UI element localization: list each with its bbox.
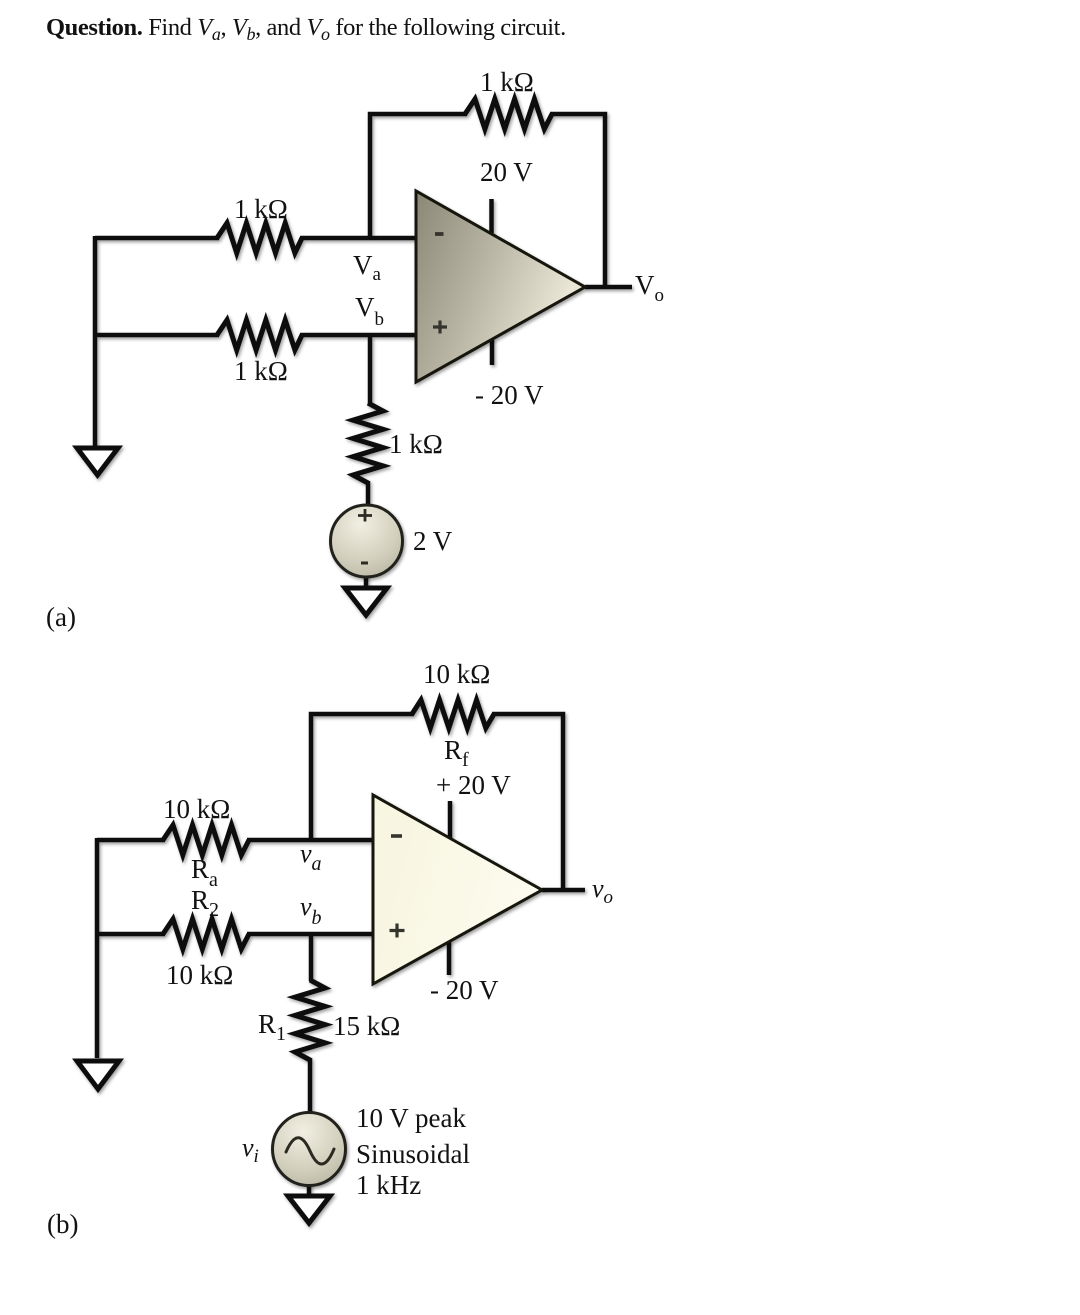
- ground left (a): [77, 448, 118, 475]
- svg-text:Rf: Rf: [444, 735, 469, 771]
- resistor 1k vertical (a): [353, 403, 383, 483]
- wire feedback right (a): [550, 114, 605, 289]
- svg-text:10 kΩ: 10 kΩ: [166, 960, 233, 990]
- wire output (b): [542, 888, 585, 893]
- wire source to ground (b): [307, 1184, 312, 1196]
- svg-text:Vb: Vb: [355, 292, 384, 330]
- resistor R input bottom 1k (a): [217, 320, 302, 350]
- resistor R input top 1k (a): [217, 223, 302, 253]
- svg-text:1 kΩ: 1 kΩ: [389, 429, 443, 459]
- wire left rail (a): [93, 236, 98, 446]
- svg-text:10 kΩ: 10 kΩ: [423, 659, 490, 689]
- op-amp U2 (b): [373, 795, 542, 984]
- source minus mark (a): [361, 562, 368, 565]
- wire node b down (a): [368, 335, 373, 404]
- wire to plus pin (a): [300, 333, 416, 338]
- sine mark (b): [286, 1138, 334, 1164]
- source plus mark (a): [358, 509, 372, 522]
- minus pin mark (b): [391, 834, 402, 838]
- svg-text:Sinusoidal: Sinusoidal: [356, 1139, 470, 1169]
- svg-text:Va: Va: [353, 250, 382, 285]
- resistor R1 15k vertical (b): [295, 980, 325, 1060]
- resistor R2 10k (b): [163, 919, 249, 949]
- wire node b down (b): [309, 934, 314, 981]
- svg-text:vi: vi: [242, 1133, 259, 1167]
- svg-text:10 V peak: 10 V peak: [356, 1103, 466, 1133]
- ground bottom (a): [345, 588, 387, 615]
- svg-text:15 kΩ: 15 kΩ: [333, 1011, 400, 1041]
- resistor Rf 10k (b): [412, 700, 494, 728]
- svg-text:1 kΩ: 1 kΩ: [234, 356, 288, 386]
- power stub +20 (b): [448, 801, 453, 838]
- wire noninverting input (a): [95, 333, 219, 338]
- wire feedback right (b): [492, 714, 563, 892]
- minus pin mark (a): [435, 232, 444, 236]
- svg-text:- 20 V: - 20 V: [475, 380, 544, 410]
- power stub -20 (b): [447, 941, 452, 975]
- wire to plus pin (b): [247, 932, 373, 937]
- svg-text:1 kΩ: 1 kΩ: [480, 67, 534, 97]
- svg-text:va: va: [300, 839, 322, 875]
- wire noninverting input (b): [97, 932, 165, 937]
- wire resistor to source (b): [308, 1058, 313, 1114]
- ground left (b): [77, 1061, 119, 1089]
- wire output (a): [585, 285, 632, 290]
- plus pin mark (b): [390, 924, 405, 938]
- svg-text:20 V: 20 V: [480, 157, 533, 187]
- wire inverting input (a): [95, 236, 219, 241]
- wire source to ground (a): [364, 575, 369, 589]
- svg-text:1 kHz: 1 kHz: [356, 1170, 421, 1200]
- svg-text:Vo: Vo: [635, 270, 664, 306]
- svg-text:R1: R1: [258, 1009, 286, 1045]
- svg-text:vb: vb: [300, 892, 322, 929]
- svg-text:1 kΩ: 1 kΩ: [234, 194, 288, 224]
- wire feedback left vertical (a): [370, 114, 467, 238]
- wire to minus pin (b): [247, 838, 373, 843]
- source V1 2V (a): [331, 505, 403, 577]
- wire resistor to source (a): [366, 481, 371, 507]
- op-amp U1 (a): [416, 191, 585, 382]
- power stub -20 (a): [490, 339, 495, 365]
- svg-text:(a): (a): [46, 602, 76, 632]
- svg-text:+ 20 V: + 20 V: [436, 770, 511, 800]
- source vi sinusoidal (b): [273, 1113, 346, 1186]
- wire inverting input (b): [97, 838, 165, 843]
- power stub +20 (a): [489, 199, 494, 233]
- wire left rail (b): [95, 838, 100, 1058]
- svg-text:Question. Find Va, Vb, and Vo: Question. Find Va, Vb, and Vo for the fo…: [46, 14, 566, 44]
- svg-text:(b): (b): [47, 1209, 78, 1239]
- svg-text:- 20 V: - 20 V: [430, 975, 499, 1005]
- plus pin mark (a): [433, 321, 447, 334]
- resistor Ra 10k (b): [163, 825, 249, 855]
- svg-text:2 V: 2 V: [413, 526, 453, 556]
- resistor feedback 1k (a): [465, 99, 552, 129]
- wire feedback left vertical (b): [311, 714, 414, 840]
- svg-text:vo: vo: [592, 874, 613, 908]
- ground bottom (b): [288, 1196, 330, 1223]
- wire to minus pin (a): [300, 236, 416, 241]
- svg-text:10 kΩ: 10 kΩ: [163, 794, 230, 824]
